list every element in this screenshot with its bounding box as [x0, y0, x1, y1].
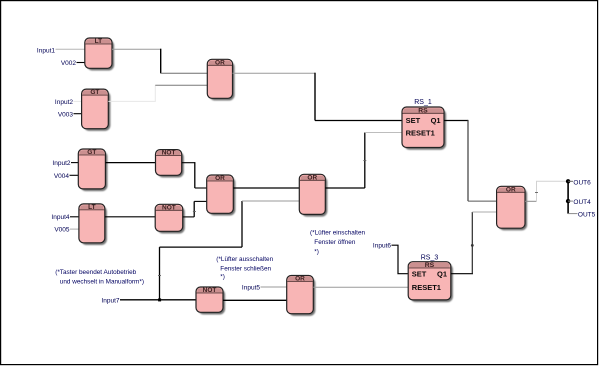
svg-text:V003: V003	[58, 111, 74, 118]
wire LT4 output to NOT2	[105, 216, 155, 218]
svg-text:NOT: NOT	[162, 150, 176, 157]
svg-text:NOT: NOT	[162, 204, 176, 211]
wire into OR6 input1	[468, 200, 497, 202]
wire Input3 to GT3	[71, 162, 78, 164]
wire NOT2 out vertical	[193, 201, 195, 217]
svg-text:RS: RS	[418, 107, 428, 114]
wire Input7 branch vertical 2	[241, 201, 243, 247]
svg-text:OR: OR	[215, 59, 225, 66]
svg-text:SET: SET	[412, 269, 427, 278]
wire into OR1 input2	[155, 84, 207, 86]
wire RS3 Q1 output	[451, 273, 473, 275]
wire V003 to GT2	[74, 113, 82, 115]
svg-text:und wechselt in Manualform*): und wechselt in Manualform*)	[60, 278, 144, 285]
wire RS1 to OR6 vertical	[467, 120, 469, 201]
svg-text:Input6: Input6	[373, 243, 391, 250]
svg-text:LT: LT	[88, 204, 95, 211]
svg-text:*): *)	[314, 248, 319, 255]
junction OUT6	[566, 179, 570, 183]
svg-text:V002: V002	[61, 60, 77, 67]
wire OR3 output	[325, 187, 365, 189]
svg-text:GT: GT	[87, 149, 96, 156]
svg-text:OUT4: OUT4	[573, 199, 591, 206]
wire LT1 output	[112, 48, 161, 50]
wire Input2 to GT2	[74, 100, 82, 102]
wire into OR3 input2	[242, 200, 299, 202]
svg-text:Input4: Input4	[51, 214, 69, 221]
junction Input7 branch	[158, 298, 161, 301]
junction tick Input7 vertical	[158, 275, 161, 277]
wire NOT1 output	[182, 162, 195, 164]
wire V002 to LT1	[77, 62, 85, 64]
wire into RS1 RESET1	[365, 132, 402, 134]
wire OR5 output to RS3 RESET1	[313, 286, 408, 288]
svg-text:LT: LT	[95, 38, 102, 45]
wire Input6 to RS3 SET	[392, 245, 409, 274]
wire NOT3 output to OR5	[223, 299, 287, 301]
wire to OUT4	[568, 200, 573, 202]
svg-text:(*Lüfter einschalten: (*Lüfter einschalten	[310, 230, 366, 237]
or gate OR5	[287, 276, 316, 316]
svg-text:Input7: Input7	[101, 298, 119, 305]
svg-text:OR: OR	[307, 174, 317, 181]
or gate OR3	[299, 174, 327, 216]
svg-text:RESET1: RESET1	[412, 283, 441, 292]
wire GT3 output to NOT1	[105, 162, 155, 164]
svg-text:RS: RS	[425, 262, 435, 269]
svg-text:Fenster schließen: Fenster schließen	[220, 266, 271, 273]
wire Input7 to NOT3	[120, 299, 196, 301]
or gate OR6	[497, 186, 528, 230]
comparator LT4	[79, 204, 107, 245]
inverter NOT2	[155, 204, 185, 233]
wire OR1 output	[233, 72, 316, 74]
svg-text:Q1: Q1	[431, 116, 441, 125]
inverter NOT3	[196, 287, 225, 315]
svg-text:OR: OR	[215, 175, 225, 182]
wire LT1 out vertical	[160, 49, 162, 74]
junction OUT4	[566, 199, 570, 203]
svg-text:Fenster öffnen: Fenster öffnen	[314, 239, 356, 246]
svg-text:GT: GT	[90, 89, 99, 96]
wire into OR2 input2	[194, 200, 207, 202]
wire into OR2 input1	[195, 187, 207, 189]
svg-text:Input2: Input2	[52, 160, 70, 167]
svg-text:NOT: NOT	[203, 287, 217, 294]
svg-text:Input1: Input1	[37, 48, 55, 55]
flipflop RS_1	[402, 107, 446, 150]
wire RS3 to OR6 vertical	[471, 212, 473, 274]
wire into RS1 SET	[315, 120, 402, 122]
wire Input4 to LT4	[70, 216, 79, 218]
wire OUT bus vertical	[567, 181, 569, 213]
svg-text:RS_1: RS_1	[414, 99, 432, 106]
svg-text:RS_3: RS_3	[421, 255, 439, 262]
svg-text:SET: SET	[406, 116, 421, 125]
wire V005 to LT4	[70, 228, 79, 230]
wire to OUT5	[568, 213, 577, 215]
junction tick NOT2 wire	[193, 211, 196, 213]
svg-text:V004: V004	[54, 173, 70, 180]
junction dot RS3 wire	[471, 244, 474, 247]
flipflop RS_3	[408, 262, 453, 302]
svg-text:Q1: Q1	[437, 269, 447, 278]
inverter NOT1	[156, 150, 184, 178]
wire GT2 output	[108, 85, 155, 101]
wire NOT2 output	[183, 216, 195, 218]
svg-text:OR: OR	[506, 186, 516, 193]
junction tick OR6 wire	[535, 192, 538, 194]
wire into OR6 input2	[472, 211, 496, 213]
wire Input5 to OR5	[261, 286, 287, 288]
wire OR3 to RS1 RESET vertical	[364, 133, 366, 189]
comparator LT1	[85, 38, 114, 71]
svg-text:(*Lüfter ausschalten: (*Lüfter ausschalten	[216, 256, 273, 263]
svg-text:OUT5: OUT5	[578, 211, 596, 218]
svg-text:*): *)	[220, 274, 225, 281]
wire OR1 to RS1 vertical	[314, 73, 316, 121]
wire OR6 output	[525, 200, 537, 202]
junction tick RS1 reset wire	[363, 160, 366, 162]
wire NOT1 out vertical	[194, 162, 196, 188]
wire Input1 to LT1	[56, 48, 85, 50]
svg-text:OUT6: OUT6	[573, 180, 591, 187]
wire V004 to GT3	[70, 174, 79, 176]
wire OR6 out elbow light	[537, 181, 569, 201]
wire Input7 branch horizontal	[160, 246, 243, 248]
comparator GT2	[82, 89, 111, 131]
svg-text:Input2: Input2	[55, 99, 73, 106]
svg-text:RESET1: RESET1	[406, 128, 435, 137]
wire RS1 Q1 output	[444, 120, 468, 122]
wire OR2 output to OR3	[233, 187, 299, 189]
or gate OR1	[207, 59, 234, 100]
wire to OUT6	[568, 180, 573, 182]
or gate OR2	[207, 175, 236, 216]
wire into OR1 input1	[161, 72, 208, 74]
comparator GT3	[78, 149, 107, 191]
svg-text:(*Taster beendet Autobetrieb: (*Taster beendet Autobetrieb	[55, 269, 136, 276]
svg-text:V005: V005	[54, 227, 70, 234]
svg-text:OR: OR	[295, 276, 305, 283]
svg-text:Input5: Input5	[242, 285, 260, 292]
wire Input7 branch vertical	[159, 247, 161, 300]
